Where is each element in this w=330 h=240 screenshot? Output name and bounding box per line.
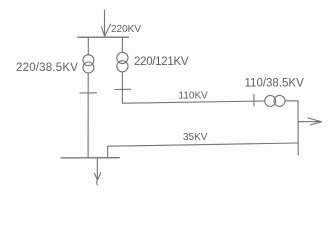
switch tick on T1 branch [80,92,97,94]
wire: below T2 down to 110KV line corner [121,72,123,103]
arrowhead: incoming feeder (points down to bus) [102,24,111,35]
wire: 110KV line (left segment up to T3) [122,101,264,103]
svg-text:35KV: 35KV [183,132,208,143]
bus: 35KV busbar [61,157,119,159]
wire: incoming 220KV feeder line [104,10,106,37]
switch tick on 110KV line [253,94,255,106]
wire: below T1 down to 35KV busbar [87,73,89,158]
wire: 35KV line from right vertical to left corner [108,143,298,146]
bus: 220KV busbar [78,36,129,38]
wire: right drop from 220KV bus to transformer T2 [121,37,123,52]
switch tick on T2 branch [115,88,131,90]
transformer T1 220/38.5KV (two windings) [83,55,94,66]
wire: right vertical from 110KV corner down across 35KV line [297,101,299,155]
svg-text:220KV: 220KV [111,24,141,35]
arrow: 110KV outgoing feeder to the right [298,121,321,123]
arrow: 35KV outgoing feeder pointing down [96,158,98,180]
wire: 35KV drop to busbar [107,146,109,158]
svg-text:110/38.5KV: 110/38.5KV [245,78,305,90]
transformer T2 220/121KV (two windings) [117,52,128,63]
wire: 110KV line (right segment after T3) [285,100,298,102]
transformer T3 110/38.5KV (two windings) [265,95,276,106]
wire: left drop from 220KV bus to transformer T1 [87,37,89,55]
svg-text:110KV: 110KV [179,91,209,102]
svg-text:220/38.5KV: 220/38.5KV [16,62,78,74]
svg-text:220/121KV: 220/121KV [134,56,189,68]
